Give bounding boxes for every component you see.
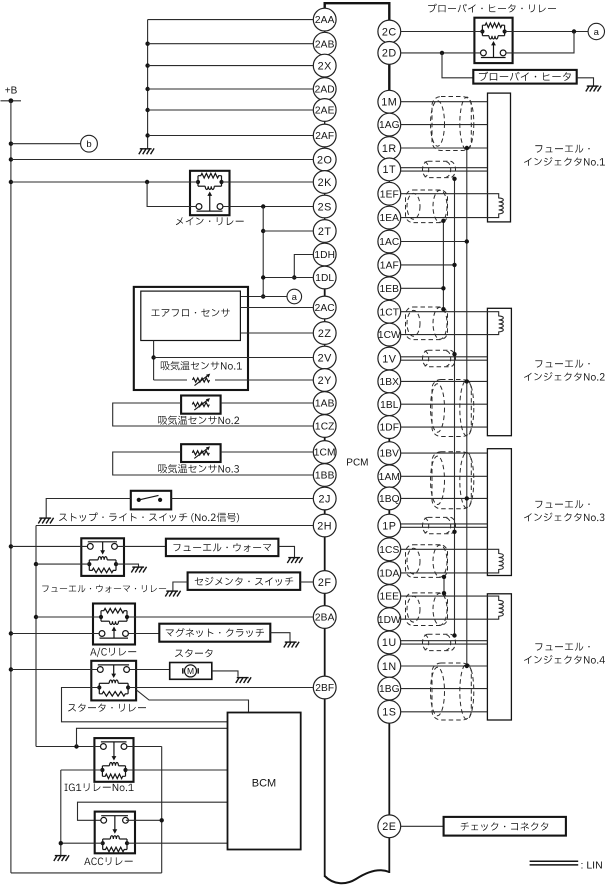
label magnet clutch [166, 628, 264, 637]
svg-text:: LIN: : LIN [581, 860, 603, 872]
svg-text:2Y: 2Y [318, 375, 332, 387]
PCM pin 1T [378, 158, 401, 181]
sedimenter switch (セジメンタ・スイッチ) box [188, 572, 301, 590]
wire +B to A/C relay switch [11, 633, 99, 635]
node 2D row heater tap [440, 51, 444, 55]
label fuel warmer relay [42, 585, 166, 593]
svg-text:2K: 2K [318, 177, 333, 189]
fuel warmer (フューエル・ウォーマ) box [166, 539, 279, 556]
wire 2S row from relay switch [223, 206, 314, 208]
node bus to 2AB row [145, 42, 149, 46]
svg-text:1BB: 1BB [315, 471, 335, 482]
PCM pin 1BV [378, 442, 401, 465]
label blow-by heater [479, 72, 571, 81]
terminal (a) right [588, 23, 604, 39]
wire to terminal b [11, 143, 81, 145]
svg-text:2AB: 2AB [315, 39, 335, 50]
wire 2J row left to ground [46, 499, 131, 518]
shield 1CS/1DA pair [406, 545, 448, 578]
wire shield drain bus A x=466.8 [466, 148, 468, 666]
wire 2BF branch to BCM top [136, 690, 248, 713]
label starter relay [68, 704, 146, 712]
wire 1DF row [401, 426, 488, 428]
PCM pin 2X [313, 54, 336, 77]
PCM pin 1CT [378, 300, 401, 323]
wire 1BL row [401, 403, 488, 405]
shield injector No.1 power wires [431, 97, 474, 151]
svg-text:1DW: 1DW [378, 615, 401, 626]
PCM pin 1EA [378, 206, 401, 229]
wire A/C coil to pin 2BA [129, 616, 313, 618]
svg-text:1BV: 1BV [380, 449, 400, 460]
wire 1P LIN pair [401, 523, 488, 525]
node 2V row [151, 355, 155, 359]
wire 1CM row [221, 451, 314, 453]
wire BCM to ACC switch feed [78, 802, 228, 820]
svg-text:1DA: 1DA [379, 568, 399, 579]
shield 1P LIN pair [423, 517, 456, 533]
label airflow sensor [151, 309, 229, 317]
node drain bus C upper [441, 307, 445, 311]
node drain bus A [465, 146, 469, 150]
ground starter motor [236, 677, 251, 683]
PCM pin 1BG [378, 677, 401, 700]
PCM pin 2S [313, 195, 336, 218]
svg-text:1AC: 1AC [379, 237, 399, 248]
wire magnet clutch to ground [270, 633, 290, 642]
PCM pin 1CS [378, 538, 401, 561]
wire feed riser x=161.7 [161, 747, 163, 873]
wire 2AC row [240, 307, 313, 309]
fuel injector No.3 connector [487, 449, 511, 576]
wire 1AM row [401, 475, 488, 477]
label fuel injector No.2 line2 [524, 372, 605, 381]
PCM pin 1EF [378, 182, 401, 205]
relay IG1 No.1 (IG1リレーNo.1) [94, 738, 133, 782]
wire 2AA row [148, 19, 314, 21]
node +B to 2O row [9, 157, 13, 161]
shield 1CT/1CW pair [406, 307, 448, 340]
svg-text:1AF: 1AF [380, 260, 399, 271]
svg-text:M: M [187, 666, 194, 676]
PCM pin 2AC [313, 296, 336, 319]
node drain bus A [465, 239, 469, 243]
ground fuel warmer [287, 557, 302, 563]
shield 1EE/1DW pair [406, 593, 448, 626]
svg-text:2BF: 2BF [315, 683, 334, 694]
shield injector No.4 power wires [431, 663, 474, 720]
PCM pin 2D [378, 42, 401, 65]
svg-text:a: a [292, 292, 298, 303]
svg-text:2AC: 2AC [315, 303, 335, 314]
svg-text:1EB: 1EB [380, 284, 400, 295]
wire IG1 switch to feed riser [127, 746, 162, 748]
PCM pin 1DA [378, 562, 401, 585]
wire relay switch to fuel warmer [117, 545, 165, 547]
airflow sensor inner box [141, 291, 241, 340]
wire IG1/ACC coil ground bus x=60.8 [60, 770, 62, 855]
wire 2T row [263, 230, 313, 232]
wire 2C row to relay coil [401, 31, 483, 33]
label starter [175, 649, 213, 657]
label fuel injector No.1 line2 [524, 157, 605, 166]
wire fuel warmer to ground [278, 546, 294, 557]
label fuel injector No.1 line1 [535, 145, 589, 153]
wire 2AD row [148, 88, 314, 90]
wire 1BG row [401, 688, 488, 690]
PCM pin 2AB [313, 32, 336, 55]
airflow sensor (エアフロ・センサ) outer box [134, 287, 248, 390]
PCM pin 1AF [378, 254, 401, 277]
label sedimenter switch [195, 577, 293, 586]
fuel injector No.4 connector [487, 594, 511, 720]
wire ACC coil left to ground bus [61, 842, 103, 844]
node 1DH joins 1DL row [292, 275, 296, 279]
wire 1AC row [401, 241, 467, 243]
label fuel injector No.3 line1 [535, 500, 589, 508]
label intake air temp sensor No.1 [161, 361, 242, 370]
svg-text:1DH: 1DH [314, 250, 335, 261]
svg-text:1BG: 1BG [379, 684, 400, 695]
PCM pin 2E [378, 815, 401, 838]
wire 1R row [401, 147, 488, 149]
wire starter motor to ground [212, 671, 238, 677]
stop light switch box [131, 491, 171, 510]
PCM pin 1AB [313, 392, 336, 415]
label ACC relay [84, 857, 133, 865]
wire shield drain bus B x=454.5 [454, 179, 456, 636]
svg-text:1BQ: 1BQ [379, 494, 400, 505]
svg-text:1DL: 1DL [315, 273, 334, 284]
wire shield drain bus C lower x=444 [443, 577, 445, 593]
node ACC switch to riser [160, 818, 164, 822]
node drain bus A [465, 664, 469, 668]
wire A/C switch to magnet clutch [128, 633, 159, 635]
wire 2AE row [148, 109, 314, 111]
wire 2D row to relay switch [401, 52, 481, 54]
wire tap down to switch row [147, 182, 196, 207]
injector No.2 coil wires 1CT/1CW [401, 312, 504, 335]
label blow-by heater relay [428, 4, 556, 13]
svg-text:PCM: PCM [346, 458, 368, 469]
svg-text:2Z: 2Z [318, 328, 332, 340]
svg-text:1EE: 1EE [380, 592, 400, 603]
PCM pin 1DL [313, 266, 336, 289]
PCM pin 2Z [313, 322, 336, 345]
PCM pin 1S [378, 700, 401, 723]
PCM pin 1R [378, 137, 401, 160]
ground magnet clutch [284, 642, 299, 648]
node bus to 2AF row [145, 133, 149, 137]
shield 1V LIN pair [423, 350, 456, 366]
relay starter (スタータ・リレー) [91, 661, 136, 701]
PCM pin 2J [313, 487, 336, 510]
wire 2K row left segment [11, 181, 198, 183]
wire 2J row right [171, 498, 313, 500]
ground blow-by heater [586, 86, 601, 92]
magnet clutch (マグネット・クラッチ) box [159, 624, 270, 642]
wire 2E row [401, 825, 444, 827]
starter motor (スタータ) box [170, 663, 212, 680]
wire airflow inner box down-left leg [153, 341, 155, 381]
fuel injector No.1 connector [488, 93, 511, 222]
PCM pin 1P [378, 514, 401, 537]
wire IG1 coil left to ground bus [61, 769, 103, 771]
thermistor intake air temp sensor No.2 [192, 398, 210, 410]
PCM pin 1N [378, 655, 401, 678]
PCM pin 2AA [313, 8, 336, 31]
svg-text:1BL: 1BL [380, 400, 399, 411]
wire 1U LIN pair [401, 640, 488, 642]
label fuel injector No.4 line2 [524, 655, 605, 664]
wire +B to starter relay switch [11, 669, 97, 671]
relay ACC (ACCリレー) [95, 812, 135, 854]
wire 1BQ row [401, 497, 488, 499]
wire junction bus x=263.2 [262, 207, 264, 297]
PCM pin 1EE [378, 585, 401, 608]
PCM pin 1M [378, 90, 401, 113]
label intake air temp sensor No.3 [158, 464, 239, 473]
label fuel injector No.3 line2 [524, 513, 604, 522]
wire 2AB row [148, 43, 314, 45]
relay main (メイン・リレー) MR [190, 171, 230, 215]
PCM pin 2V [313, 346, 336, 369]
node +B to (b) row [9, 142, 13, 146]
wire 2Y row right [215, 379, 313, 381]
PCM pin 1AG [378, 113, 401, 136]
wire 2Z row [240, 332, 313, 334]
PCM pin 1BB [313, 464, 336, 487]
label intake air temp sensor No.2 [158, 416, 239, 425]
PCM bottom break wave [325, 870, 390, 883]
PCM pin 1EB [378, 277, 401, 300]
wire 1AB row [221, 402, 314, 404]
node +B to A/C switch [9, 631, 13, 635]
wire 2H bus to A/C relay coil [36, 616, 99, 618]
wire 2H bus to relay coil [36, 563, 89, 565]
PCM pin 2BA [313, 606, 336, 629]
ground sedimenter switch [165, 591, 180, 597]
PCM pin 1DH [313, 243, 336, 266]
wire starter coil to pin 2BF [128, 687, 313, 689]
node bus to 2AE row [145, 108, 149, 112]
node terminal a row [261, 294, 265, 298]
svg-text:1AB: 1AB [315, 399, 335, 410]
wire 2H row [36, 525, 313, 527]
svg-text:2S: 2S [318, 201, 332, 213]
svg-text:1DF: 1DF [380, 423, 400, 434]
svg-text:1AG: 1AG [379, 120, 400, 131]
wire 2K row right segment [222, 181, 314, 183]
svg-text:1M: 1M [381, 96, 397, 108]
label stop light switch [59, 513, 239, 523]
terminal (a) left [287, 289, 302, 304]
node drain bus B [452, 530, 456, 534]
wire 2F row [300, 581, 313, 583]
node bus to 2X row [145, 63, 149, 67]
PCM pin 2AF [313, 124, 336, 147]
shield 1U LIN pair [423, 634, 456, 650]
wire 1AG row [401, 124, 488, 126]
ground fuel warmer relay coil [131, 567, 146, 573]
wire starter coil left leg to BCM [62, 688, 228, 722]
svg-text:1T: 1T [382, 164, 396, 176]
node 2S row junction [261, 204, 265, 208]
PCM pin 2T [313, 220, 336, 243]
svg-text:1CW: 1CW [378, 330, 401, 341]
wire 1BV row [401, 452, 488, 454]
PCM pin 2AD [313, 78, 336, 101]
ground top-left bus [139, 148, 154, 154]
svg-text:2D: 2D [382, 48, 397, 60]
wire IG1 coil right to BCM [126, 769, 228, 771]
PCM pin 1DF [378, 416, 401, 439]
svg-text:2AD: 2AD [315, 85, 335, 96]
wire 1EB row [401, 287, 444, 289]
svg-text:1EA: 1EA [380, 213, 400, 224]
node 2T row junction [261, 229, 265, 233]
wire blow-by heater to ground [577, 78, 594, 86]
wire 1DL row [263, 277, 313, 279]
shield injector No.2 power wires [431, 380, 474, 437]
svg-text:1CS: 1CS [379, 545, 399, 556]
svg-text:2J: 2J [318, 493, 330, 505]
node 1DL row to junction bus [261, 275, 265, 279]
wire 2H bus x=36 [35, 526, 37, 747]
wire IG1 feed leg to BCM [77, 728, 228, 746]
fuel injector No.2 connector [487, 308, 511, 435]
node drain bus C upper [441, 286, 445, 290]
wire shield drain bus C upper x=443.4 [442, 221, 444, 309]
wire 1AF row [401, 264, 455, 266]
node 2C to switch return [572, 29, 576, 33]
relay A/C (A/Cリレー) [93, 604, 135, 645]
PCM pin 2Y [313, 369, 336, 392]
node drain bus A [465, 496, 469, 500]
node IG1 switch feed to BCM leg [74, 744, 78, 748]
PCM pin 1CM [313, 441, 336, 464]
injector No.3 coil wires 1CS/1DA [401, 549, 504, 573]
svg-text:2E: 2E [382, 821, 396, 833]
svg-text:2V: 2V [318, 352, 333, 364]
terminal (b) [81, 135, 98, 152]
wire 1V LIN pair [401, 356, 488, 358]
svg-text:1AM: 1AM [379, 472, 400, 483]
svg-text:2F: 2F [318, 577, 332, 589]
label fuel injector No.2 line1 [535, 360, 589, 368]
thermistor intake air temp sensor No.1 [193, 374, 211, 386]
injector No.4 coil wires 1EE/1DW [401, 596, 504, 619]
ground IG1/ACC relay coils [54, 855, 69, 861]
svg-text:2O: 2O [317, 154, 332, 166]
label fuel injector No.4 line1 [535, 643, 589, 651]
svg-text:b: b [86, 139, 91, 150]
wire 2X row [148, 65, 314, 67]
intake air temp sensor No.3 box [181, 444, 221, 462]
ground stop light switch [38, 518, 53, 524]
wire 2H bus corner to IG1 switch [36, 746, 101, 748]
label check connector [461, 822, 549, 831]
PCM pin 1DW [378, 608, 401, 631]
wire 1DH jog down to 1DL row [294, 255, 313, 278]
wire +B bus vertical [10, 101, 12, 873]
PCM pin 1BQ [378, 487, 401, 510]
shield 1T LIN pair [423, 161, 456, 177]
wire +B to fuel warmer relay switch [11, 545, 87, 547]
wire 2O row [11, 159, 314, 161]
svg-text:1N: 1N [382, 661, 397, 673]
label IG1 relay No.1 [65, 783, 134, 791]
wire 1BX row [401, 380, 488, 382]
PCM pin 2C [378, 20, 401, 43]
shield 1EF/1EA pair [406, 190, 448, 223]
PCM pin 1V [378, 347, 401, 370]
svg-text:1S: 1S [382, 707, 396, 719]
svg-text:1U: 1U [382, 637, 397, 649]
wire 1T LIN pair [401, 167, 488, 169]
legend LIN double line [530, 860, 603, 872]
svg-text:1CZ: 1CZ [315, 422, 335, 433]
PCM pin 1AC [378, 230, 401, 253]
wire 1N row [401, 665, 488, 667]
PCM pin 1U [378, 631, 401, 654]
relay blow-by heater [474, 18, 512, 63]
node ground bus ACC coil [59, 841, 63, 845]
svg-text:a: a [594, 27, 600, 38]
node +B to 2K row [9, 180, 13, 184]
svg-text:1P: 1P [382, 520, 396, 532]
shield injector No.3 power wires [431, 452, 474, 509]
node bus to 2AD row [145, 87, 149, 91]
PCM top bracket [325, 3, 390, 21]
svg-text:1V: 1V [382, 353, 397, 365]
node drain bus C upper [441, 219, 445, 223]
label A/C relay [90, 648, 136, 657]
wire ACC coil right to BCM [127, 842, 228, 844]
wire 2AF row [148, 135, 314, 137]
wire ACC switch to feed riser [126, 819, 162, 821]
wire sensor No.3 loop to 1BB [113, 452, 314, 475]
node +B to starter switch [9, 667, 13, 671]
wire +B bottom run to ACC/IG1 feed riser [11, 872, 162, 874]
PCM pin 2AE [313, 99, 336, 122]
wire top-left ground bus x=147.6 [147, 20, 149, 149]
wire relay coil right to ground [116, 564, 139, 566]
label fuel warmer [173, 543, 271, 552]
node drain bus A [465, 379, 469, 383]
node drain bus B [452, 633, 456, 637]
node drain bus B [452, 352, 456, 356]
node 2H bus to A/C coil [34, 615, 38, 619]
thermistor intake air temp sensor No.3 [192, 446, 210, 458]
PCM pin 1CZ [313, 415, 336, 438]
+B supply terminal [1, 86, 22, 104]
wire 1M row [401, 101, 488, 103]
PCM pin 2O [313, 148, 336, 171]
svg-text:1R: 1R [382, 143, 397, 155]
check connector (チェック・コネクタ) box [444, 817, 566, 836]
svg-text:2T: 2T [318, 226, 332, 238]
node 2K row tap [145, 180, 149, 184]
wire relay switch return up to 2C junction [506, 32, 574, 53]
wire airflow sensor to terminal a [240, 296, 287, 298]
BCM box [228, 713, 301, 850]
svg-text:1EF: 1EF [380, 189, 399, 200]
PCM pin 2K [313, 171, 336, 194]
svg-text:1CM: 1CM [314, 448, 336, 459]
wire starter relay switch to starter motor [130, 669, 170, 671]
svg-text:1BX: 1BX [380, 377, 400, 388]
